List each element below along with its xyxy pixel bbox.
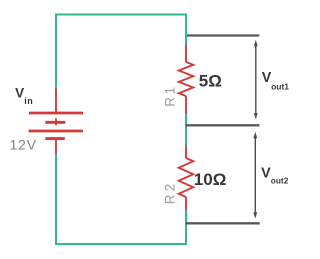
svg-text:10Ω: 10Ω [194, 170, 227, 189]
svg-text:5Ω: 5Ω [199, 71, 222, 90]
svg-text:V: V [15, 86, 24, 101]
svg-text:R2: R2 [163, 181, 178, 205]
svg-text:12V: 12V [10, 138, 37, 153]
svg-text:out1: out1 [271, 81, 289, 91]
svg-text:in: in [24, 96, 33, 106]
svg-text:V: V [261, 165, 271, 181]
svg-text:out2: out2 [271, 176, 289, 186]
svg-text:R1: R1 [163, 85, 178, 107]
